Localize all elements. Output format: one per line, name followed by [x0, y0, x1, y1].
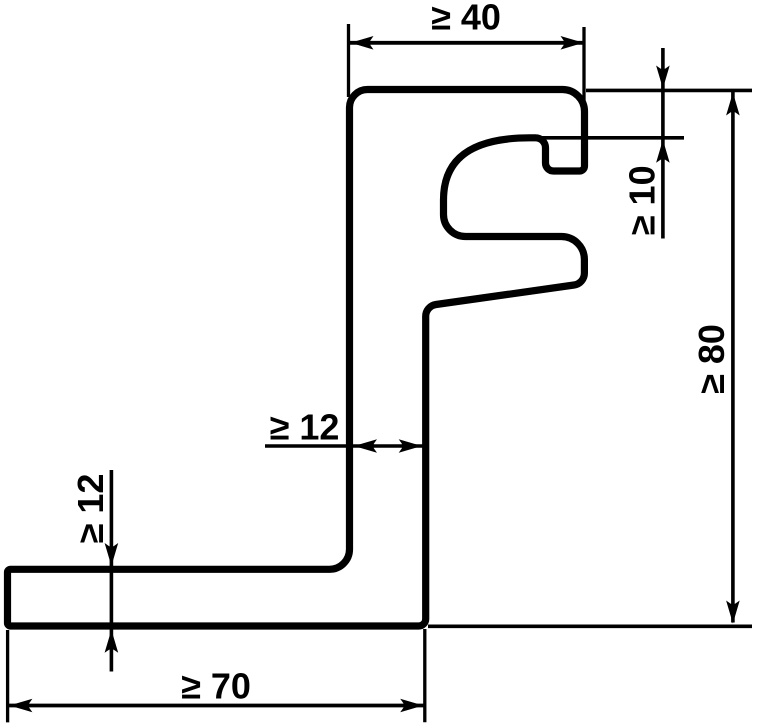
- dim 12 mid: left arrowhead: [354, 439, 377, 453]
- svg-text:≥ 40: ≥ 40: [431, 0, 501, 38]
- dim 40: left arrowhead: [351, 36, 374, 50]
- dim 80: top arrowhead (up): [726, 93, 740, 116]
- dim 40: right extension line: [582, 27, 585, 168]
- svg-text:≥ 70: ≥ 70: [181, 666, 251, 707]
- dim 12 left: dimension line: [110, 470, 114, 672]
- dim 12 left: bottom arrowhead (up): [105, 630, 119, 653]
- dim 10: lower reference line: [540, 136, 684, 140]
- svg-text:≥ 80: ≥ 80: [691, 324, 732, 394]
- dim 70: left arrowhead: [9, 699, 32, 713]
- profile outline of rail cross-section: [8, 90, 585, 627]
- dim 10: dimension line: [661, 48, 665, 239]
- dim 10: top arrowhead (down): [656, 66, 670, 89]
- dim 70: dimension line: [9, 704, 424, 708]
- dim 70: left extension line: [6, 630, 9, 722]
- dim 40: dimension line: [350, 41, 584, 45]
- dim 40: right arrowhead: [561, 36, 584, 50]
- dim 12 mid: dimension line with text shelf: [265, 444, 426, 448]
- dim 80: dimension line: [731, 92, 735, 623]
- svg-text:≥ 12: ≥ 12: [70, 474, 111, 544]
- dim 40: left extension line: [347, 24, 350, 97]
- svg-text:≥ 12: ≥ 12: [270, 407, 340, 448]
- dim 12 mid: right arrowhead: [399, 439, 422, 453]
- dim 12 left: top arrowhead (down): [105, 543, 119, 566]
- dim 70: right extension line: [423, 629, 426, 722]
- dim 80: bottom arrowhead (down): [726, 601, 740, 624]
- svg-text:≥ 10: ≥ 10: [622, 165, 663, 235]
- dim 10: upper reference line: [586, 89, 752, 93]
- dim 10: bottom arrowhead (up): [656, 140, 670, 163]
- dim 80: bottom reference line: [428, 624, 752, 628]
- dim 70: right arrowhead: [400, 699, 423, 713]
